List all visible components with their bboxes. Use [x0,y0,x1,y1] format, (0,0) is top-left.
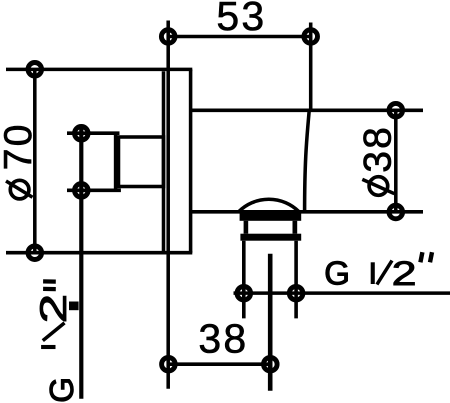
svg-text:G: G [43,377,80,403]
svg-text:53: 53 [216,0,266,39]
svg-text:G: G [324,255,350,292]
svg-text:2: 2 [392,255,417,293]
svg-text:38: 38 [357,125,400,173]
svg-text:70: 70 [0,122,40,170]
svg-text:2: 2 [32,294,74,324]
svg-text:38: 38 [198,315,248,361]
